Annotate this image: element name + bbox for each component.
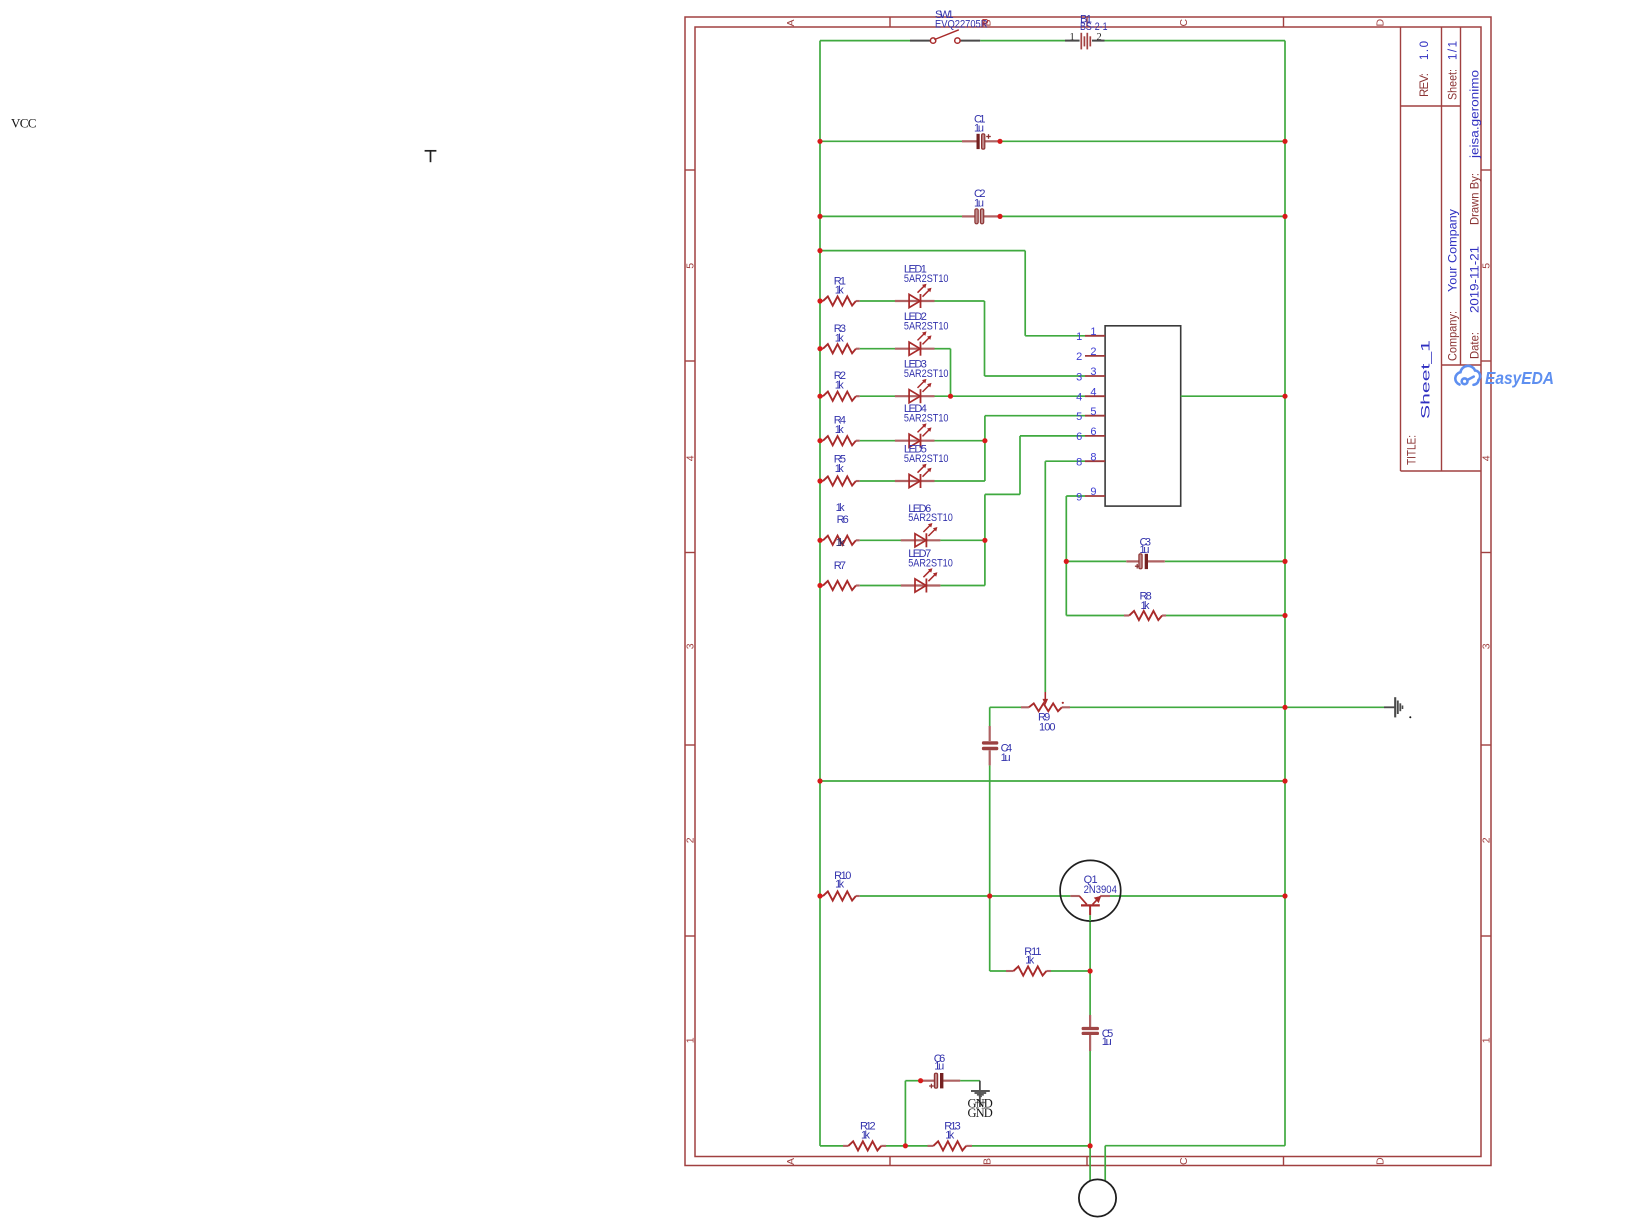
capacitor C4 <box>982 741 998 744</box>
wire LED2 cathode run <box>935 348 951 350</box>
svg-text:5AR2ST10: 5AR2ST10 <box>904 321 949 333</box>
wire R1 row resistor-to-LED <box>860 300 895 302</box>
wire C5 to bottom row <box>1089 1035 1091 1146</box>
LED LED6 <box>901 523 941 547</box>
svg-text:4: 4 <box>685 455 697 461</box>
frame tick top x=1087 <box>1086 17 1088 27</box>
resistor R5 leads <box>820 480 823 482</box>
svg-text:1u: 1u <box>974 123 984 135</box>
IC pin 3 lead <box>1085 375 1105 377</box>
svg-text:6: 6 <box>1090 426 1096 438</box>
resistor R3 <box>823 344 856 353</box>
svg-text:1u: 1u <box>1001 752 1011 764</box>
ground symbol (rotated) at right of R9 net <box>1384 697 1403 717</box>
capacitor C2 leads <box>962 215 975 217</box>
potentiometer R9 wiper arrow <box>1044 692 1046 701</box>
svg-text:1: 1 <box>1481 1037 1493 1043</box>
wire C3 row left <box>1066 560 1126 562</box>
svg-text:2N3904: 2N3904 <box>1084 884 1117 896</box>
capacitor C1 plus sign <box>986 134 991 139</box>
wire net to pin1 vertical <box>1024 251 1026 336</box>
svg-text:5AR2ST10: 5AR2ST10 <box>904 453 949 465</box>
capacitor C6 leads <box>921 1080 935 1082</box>
svg-text:9: 9 <box>1090 486 1096 498</box>
transistor Q1 base lead green continuation <box>1089 915 1091 921</box>
junction node (1090,971) <box>1088 968 1093 973</box>
junction node (1285,396) <box>1282 394 1287 399</box>
svg-text:1u: 1u <box>1102 1036 1112 1048</box>
junction node (820,540) <box>817 538 822 543</box>
wire R7 row resistor-to-LED <box>860 585 901 587</box>
svg-text:1k: 1k <box>861 1130 871 1142</box>
transistor Q1 emitter arrow <box>1094 896 1101 903</box>
svg-text:5: 5 <box>1076 411 1082 423</box>
svg-text:EVQ22705R: EVQ22705R <box>935 19 988 31</box>
wire LED7 cathode run <box>940 585 985 587</box>
IC pin 2 lead <box>1085 355 1105 357</box>
capacitor C3 <box>1139 554 1142 569</box>
frame tick left y=745 <box>685 744 695 746</box>
sheet frame inner border <box>695 27 1481 1157</box>
svg-text:1k: 1k <box>835 332 845 344</box>
svg-text:REV:: REV: <box>1419 73 1431 97</box>
wire C6 drop to bottom row <box>904 1081 906 1146</box>
stray dot <box>1409 716 1411 718</box>
junction node (820,481) <box>817 478 822 483</box>
svg-text:5AR2ST10: 5AR2ST10 <box>904 368 949 380</box>
switch SW1 <box>930 38 935 43</box>
wire C3 row right <box>1165 560 1285 562</box>
junction node (1285,141) <box>1282 139 1287 144</box>
resistor R5 <box>823 476 856 485</box>
junction node (1285,561) <box>1282 559 1287 564</box>
svg-text:2019-11-21: 2019-11-21 <box>1470 246 1482 313</box>
svg-text:P: P <box>982 18 989 30</box>
svg-text:1k: 1k <box>835 424 845 436</box>
resistor R6 <box>823 536 856 545</box>
wire pin3 wire <box>985 375 1086 377</box>
resistor R10 <box>823 891 856 900</box>
resistor R6 leads <box>820 539 823 541</box>
wire R9 row right <box>1070 706 1384 708</box>
svg-text:1k: 1k <box>835 463 845 475</box>
junction node (820,396) <box>817 394 822 399</box>
svg-text:5AR2ST10: 5AR2ST10 <box>908 557 953 569</box>
frame tick right y=361 <box>1481 360 1491 362</box>
svg-text:1.0: 1.0 <box>1419 41 1431 60</box>
LED LED5 <box>895 464 935 488</box>
junction node (820,301) <box>817 298 822 303</box>
frame tick bottom x=1283.5 <box>1283 1157 1285 1166</box>
resistor R3 leads <box>820 348 823 350</box>
capacitor C2 <box>975 209 978 224</box>
svg-text:4: 4 <box>1090 386 1096 398</box>
wire Q1 emitter to rail <box>1110 895 1285 897</box>
svg-text:D: D <box>1374 1157 1386 1165</box>
wire pin1 wire <box>1025 335 1085 337</box>
junction node (1285,216) <box>1282 214 1287 219</box>
svg-text:C: C <box>1178 19 1190 27</box>
svg-text:2: 2 <box>1090 346 1096 358</box>
svg-text:VCC: VCC <box>11 115 36 130</box>
IC pin 5 lead <box>1085 415 1105 417</box>
svg-text:1k: 1k <box>945 1130 955 1142</box>
resistor R10 leads <box>820 895 823 897</box>
svg-text:Drawn By:: Drawn By: <box>1470 173 1482 225</box>
svg-text:3: 3 <box>1481 643 1493 649</box>
svg-text:1k: 1k <box>835 379 845 391</box>
wire pin6 drop segment <box>984 494 986 585</box>
wire LED4 cathode run <box>935 440 985 442</box>
svg-text:5: 5 <box>685 263 697 269</box>
svg-text:1/1: 1/1 <box>1448 41 1460 60</box>
wire pin6 jog horizontal <box>985 493 1020 495</box>
IC U1 body <box>1105 326 1181 506</box>
wire bottom row left <box>820 1145 843 1147</box>
junction node (990,896) <box>987 893 992 898</box>
LED LED3 <box>895 379 935 403</box>
resistor R9 leads <box>1021 706 1029 708</box>
frame tick right y=552.5 <box>1481 552 1491 554</box>
svg-text:1k: 1k <box>1141 600 1151 612</box>
junction node (820,141) <box>817 139 822 144</box>
wire top mid segment (switch to battery) <box>980 40 1065 42</box>
wire C2 row right <box>1000 215 1285 217</box>
IC pin 1 lead <box>1085 335 1105 337</box>
svg-text:2: 2 <box>1481 837 1493 843</box>
wire R6 row resistor-to-LED <box>860 539 901 541</box>
ground GND symbol at C6 <box>971 1081 990 1107</box>
wire speaker right drop <box>1104 1146 1106 1181</box>
frame tick left y=361 <box>685 360 695 362</box>
resistor R11 <box>1014 966 1047 975</box>
svg-text:1: 1 <box>1076 331 1082 343</box>
IC pin 6 lead <box>1085 435 1105 437</box>
junction node (820,349) <box>817 346 822 351</box>
svg-text:R6: R6 <box>837 514 849 526</box>
IC pin 9 lead <box>1085 495 1105 497</box>
svg-text:A: A <box>785 19 797 26</box>
svg-text:jeisa.geronimo: jeisa.geronimo <box>1470 70 1482 159</box>
junction node (820,216) <box>817 214 822 219</box>
svg-text:GND: GND <box>968 1106 993 1120</box>
svg-text:A: A <box>785 1158 797 1165</box>
resistor R11 leads <box>1006 970 1014 972</box>
frame tick right y=745 <box>1481 744 1491 746</box>
frame tick top x=1283.5 <box>1283 17 1285 27</box>
wire C1 row right <box>1000 140 1285 142</box>
wire pin4 wire (LED3 row) <box>935 395 1086 397</box>
svg-text:5: 5 <box>1090 406 1096 418</box>
wire bottom row R13-east <box>972 1145 1090 1147</box>
resistor R2 leads <box>820 395 823 397</box>
svg-text:C: C <box>1178 1157 1190 1165</box>
wire Q1 base drop <box>1089 921 1091 1015</box>
junction node (1285,781) <box>1282 778 1287 783</box>
resistor R9 wiper contact dot <box>1062 702 1064 704</box>
junction node (1066,561) <box>1064 559 1069 564</box>
resistor R12 <box>848 1141 881 1150</box>
svg-text:4: 4 <box>1481 455 1493 461</box>
svg-text:8: 8 <box>1076 457 1082 469</box>
capacitor C6 plus sign <box>929 1084 934 1089</box>
junction node (820,896) <box>817 893 822 898</box>
wire C4 top riser <box>989 707 991 726</box>
wire pin8 drop to R9 <box>1044 461 1046 692</box>
wire C1 row left <box>820 140 962 142</box>
battery B1 leads <box>1065 40 1080 42</box>
frame tick left y=936 <box>685 935 695 937</box>
junction node (820,586) <box>817 583 822 588</box>
svg-text:1k: 1k <box>835 878 845 890</box>
junction node (905,1146) <box>903 1143 908 1148</box>
IC pin 8 lead <box>1085 460 1105 462</box>
capacitor C5 leads <box>1089 1015 1091 1027</box>
wire R10 row to Q1 <box>860 895 1071 897</box>
wire R5 row resistor-to-LED <box>860 480 895 482</box>
transistor Q1 leads <box>1070 895 1079 897</box>
floating T symbol <box>425 151 437 162</box>
svg-text:Date:: Date: <box>1470 332 1482 359</box>
resistor R9 (pot body) <box>1029 703 1062 711</box>
wire pin9 wire <box>1066 495 1085 497</box>
IC right-side pin wire <box>1181 395 1285 397</box>
svg-text:9: 9 <box>1076 491 1082 503</box>
wire pin3 riser <box>984 301 986 376</box>
junction node (1090,1146) <box>1088 1143 1093 1148</box>
wire pin9 drop <box>1065 496 1067 616</box>
svg-text:1u: 1u <box>934 1061 944 1073</box>
resistor R2 <box>823 392 856 401</box>
wire R3 row resistor-to-LED <box>860 348 895 350</box>
svg-text:2: 2 <box>685 837 697 843</box>
title block outline <box>1401 27 1482 471</box>
wire LED5 cathode run <box>935 480 985 482</box>
resistor R4 leads <box>820 440 823 442</box>
svg-text:4: 4 <box>1076 392 1082 404</box>
junction node (1000,141) <box>997 139 1002 144</box>
resistor R1 <box>823 296 856 305</box>
svg-text:B: B <box>981 1158 993 1165</box>
resistor R1 leads <box>820 300 823 302</box>
capacitor C1 leads <box>962 140 977 142</box>
wire pin6 riser <box>1019 436 1021 495</box>
LED LED7 <box>901 568 941 592</box>
frame tick left y=552.5 <box>685 552 695 554</box>
junction node (985,441) <box>982 438 987 443</box>
resistor R13 leads <box>928 1145 934 1147</box>
capacitor C5 <box>1082 1027 1099 1030</box>
wire C6 row west <box>905 1080 920 1082</box>
sheet frame outer border <box>685 17 1491 1166</box>
junction node (820,781) <box>817 778 822 783</box>
LED LED4 <box>895 423 935 447</box>
frame tick bottom x=890 <box>889 1157 891 1166</box>
wire LED6 cathode run <box>940 539 985 541</box>
svg-text:EasyEDA: EasyEDA <box>1485 368 1554 388</box>
switch SW1 leads <box>910 40 930 42</box>
frame tick top x=890 <box>889 17 891 27</box>
wire pin8 wire <box>1045 460 1085 462</box>
wire C6 to GND jog <box>960 1080 980 1082</box>
svg-text:5: 5 <box>1481 263 1493 269</box>
wire pin5 riser <box>984 416 986 481</box>
wire left rail <box>819 41 821 1146</box>
wire right rail <box>1284 41 1286 1146</box>
speaker/buzzer circle <box>1079 1179 1116 1216</box>
svg-text:R7: R7 <box>834 560 846 572</box>
wire C4 bottom drop <box>989 765 991 971</box>
svg-text:5AR2ST10: 5AR2ST10 <box>904 413 949 425</box>
junction node (1000,216) <box>997 214 1002 219</box>
wire C6 row east <box>944 1080 961 1082</box>
frame tick right y=936 <box>1481 935 1491 937</box>
junction node (820,441) <box>817 438 822 443</box>
wire R8 row left <box>1066 615 1124 617</box>
wire R8 row right <box>1166 615 1285 617</box>
svg-text:5AR2ST10: 5AR2ST10 <box>908 512 953 524</box>
wire LED1 to pin3 horizontal <box>935 300 985 302</box>
wire top-left segment <box>820 40 910 42</box>
svg-text:1u: 1u <box>1140 544 1150 556</box>
resistor R8 leads <box>1124 614 1129 616</box>
svg-text:2: 2 <box>1097 32 1102 43</box>
LED LED1 <box>895 284 935 308</box>
capacitor C6 <box>934 1073 937 1088</box>
capacitor C3 plus sign <box>1135 564 1140 569</box>
svg-text:2: 2 <box>1076 351 1082 363</box>
wire pin6 wire <box>1020 435 1085 437</box>
wire R11 to base <box>1051 970 1090 972</box>
junction node (1285,896) <box>1282 893 1287 898</box>
resistor R8 <box>1129 611 1162 620</box>
LED LED2 <box>895 331 935 355</box>
wire R9 row left <box>990 706 1021 708</box>
capacitor C3 leads <box>1126 560 1139 562</box>
junction node (820,251) <box>817 248 822 253</box>
capacitor C1 <box>977 134 980 149</box>
IC pin 4 lead <box>1085 395 1105 397</box>
wire top right segment (battery to rail) <box>1105 40 1286 42</box>
junction node (950,396) <box>948 394 953 399</box>
svg-text:1: 1 <box>1070 32 1075 43</box>
svg-text:3: 3 <box>1076 371 1082 383</box>
svg-text:5AR2ST10: 5AR2ST10 <box>904 273 949 285</box>
svg-text:100: 100 <box>1039 721 1056 733</box>
svg-text:1k: 1k <box>835 285 845 297</box>
wire rail bottom jog <box>1105 1145 1285 1147</box>
wire R11 row left <box>990 970 1006 972</box>
wire R4 row resistor-to-LED <box>860 440 895 442</box>
svg-text:Sheet_1: Sheet_1 <box>1421 340 1433 419</box>
svg-text:3: 3 <box>1090 366 1096 378</box>
transistor Q1 symbol <box>1080 896 1101 915</box>
svg-text:TITLE:: TITLE: <box>1407 435 1419 465</box>
svg-text:1: 1 <box>1090 326 1096 338</box>
svg-text:1k: 1k <box>1025 955 1035 967</box>
frame tick bottom x=1087 <box>1086 1157 1088 1166</box>
frame tick right y=170 <box>1481 169 1491 171</box>
svg-text:6: 6 <box>1076 431 1082 443</box>
EasyEDA logo cloud icon <box>1455 366 1480 385</box>
svg-text:1: 1 <box>685 1037 697 1043</box>
svg-text:1k: 1k <box>836 537 846 549</box>
junction node (985,540) <box>982 538 987 543</box>
wire pin5 wire <box>985 415 1085 417</box>
wire mid rail row y781 <box>820 780 1285 782</box>
battery B1 plates <box>1081 33 1090 50</box>
resistor R12 leads <box>843 1145 848 1147</box>
transistor Q1 circle <box>1060 860 1121 921</box>
svg-text:3: 3 <box>685 643 697 649</box>
wire C2 row left <box>820 215 962 217</box>
resistor R4 <box>823 436 856 445</box>
frame tick left y=170 <box>685 169 695 171</box>
svg-text:1k: 1k <box>836 502 846 514</box>
wire bottom row R12-R13 <box>884 1145 928 1147</box>
svg-text:D: D <box>1374 19 1386 27</box>
svg-text:BS-2-1: BS-2-1 <box>1080 21 1108 33</box>
svg-text:Company:: Company: <box>1448 311 1460 361</box>
junction node (921,1081) <box>918 1078 923 1083</box>
svg-text:Your Company: Your Company <box>1448 209 1460 292</box>
resistor R7 <box>823 581 856 590</box>
junction node (1285,707) <box>1282 705 1287 710</box>
svg-text:1u: 1u <box>974 197 984 209</box>
wire base rail to speaker <box>1089 1146 1091 1181</box>
svg-text:8: 8 <box>1090 451 1096 463</box>
svg-text:Sheet:: Sheet: <box>1448 69 1460 100</box>
wire net to pin1 horizontal at y250 <box>820 250 1025 252</box>
resistor R13 <box>933 1141 966 1150</box>
resistor R7 leads <box>820 584 823 586</box>
capacitor C4 leads <box>989 726 991 741</box>
junction node (1285,616) <box>1282 613 1287 618</box>
wire LED2 drop to pin4 row <box>950 349 952 397</box>
wire R2 row resistor-to-LED <box>860 395 895 397</box>
